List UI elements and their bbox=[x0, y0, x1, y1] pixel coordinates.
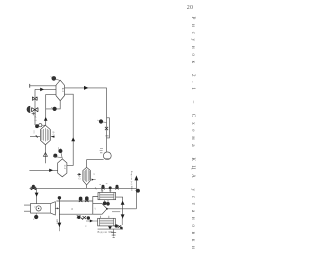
check valve at header/riser corner bbox=[136, 189, 140, 193]
T-1 bottom outlet valves bbox=[103, 201, 107, 205]
T-1 top nozzles bbox=[102, 188, 110, 192]
stub with arrow into T-2 shell bbox=[86, 220, 98, 222]
upper cross wire to ejector bbox=[56, 200, 92, 202]
wire into A-1 apex bbox=[35, 125, 45, 126]
wire K-1 side draw down to separator S-1 bbox=[65, 94, 74, 165]
svg-text:ЦК-1: ЦК-1 bbox=[56, 219, 59, 225]
suction stubs on E-1 left bbox=[24, 205, 31, 211]
control valve KR1 with actuator bbox=[27, 106, 38, 115]
heat exchanger T-2 shell bbox=[98, 218, 116, 226]
arrow on second inlet bbox=[40, 88, 44, 92]
wire A-2 bottom to main header bbox=[86, 185, 88, 188]
arrow up into T-1 return bbox=[121, 201, 125, 205]
main purge header wire bbox=[30, 187, 137, 189]
svg-text:Рисунок 2.1 – Схема КЦА устано: Рисунок 2.1 – Схема КЦА установки bbox=[190, 17, 196, 254]
tick on header bbox=[95, 187, 96, 189]
svg-text:сг: сг bbox=[93, 173, 95, 175]
valve on meter run bbox=[105, 127, 108, 130]
ejector EZh-1 bbox=[93, 204, 107, 215]
wire second inlet line to K-1 bbox=[35, 89, 56, 125]
valve row under lower cross wire bbox=[77, 215, 90, 219]
arrow down at bottom of down-leg bbox=[58, 223, 62, 227]
compressor PK-1 bbox=[103, 152, 111, 160]
valve pair with actuators on upper cross wire bbox=[79, 197, 83, 201]
svg-text:С-1: С-1 bbox=[63, 165, 66, 170]
wire raw feed into S-1 from left bbox=[29, 169, 57, 171]
branch down to receiver E-1 bbox=[36, 188, 38, 203]
svg-text:Вода из (к) ХВО: Вода из (к) ХВО bbox=[130, 171, 133, 192]
T-2 inlet jog wire bbox=[112, 211, 120, 213]
arrow on overhead line bbox=[84, 86, 88, 90]
svg-text:А-1: А-1 bbox=[52, 131, 55, 136]
column K-1 body bbox=[56, 80, 65, 101]
wire regeneration gas into A-1 left bbox=[30, 135, 40, 137]
node feed tick bbox=[29, 84, 31, 88]
pump N-0 on bottoms line bbox=[53, 107, 57, 111]
arrow up to K-1 bbox=[44, 117, 48, 121]
wire T-1 left head to ejector top bbox=[93, 197, 98, 204]
svg-text:ВСГ: ВСГ bbox=[33, 112, 36, 118]
wire compressor to adsorber A-2 bbox=[87, 159, 104, 167]
orifice tick bbox=[105, 135, 108, 137]
T-2 top stubs bbox=[100, 216, 109, 219]
arrow on S-1 feed bbox=[49, 169, 53, 172]
wire T-1 right head down across collector bbox=[116, 197, 123, 219]
arrow down on branch bbox=[35, 193, 39, 197]
tag marks above T-1 bbox=[99, 183, 107, 186]
outlet riser wire with arrow bbox=[135, 180, 137, 209]
main run of meter station bbox=[106, 118, 108, 152]
separator S-1 vessel bbox=[58, 159, 67, 177]
tube bundle lines T-1 bbox=[100, 194, 114, 197]
svg-text:2: 2 bbox=[84, 225, 87, 227]
compressor tag lines bbox=[100, 148, 103, 152]
valve VN1 on riser bbox=[32, 97, 37, 101]
arrow into A-1 right side with stub bbox=[51, 136, 55, 138]
instrument FE with leader bbox=[99, 119, 103, 123]
svg-text:ц: ц bbox=[33, 206, 35, 208]
valve with handwheel on header left end bbox=[32, 185, 35, 188]
heat exchanger T-1 shell bbox=[98, 193, 116, 200]
cooling water return wire under T-2 bbox=[98, 228, 123, 230]
tick valve on that wire bbox=[36, 135, 38, 137]
lower cross wire (ejector suction) bbox=[59, 213, 92, 215]
instrument under E-1 bbox=[34, 215, 38, 219]
vent triangle on A-1 bottom line bbox=[43, 153, 47, 157]
svg-text:газ: газ bbox=[32, 130, 35, 133]
adsorbent bed hatching A-1 bbox=[42, 128, 49, 141]
adsorber A-1 vessel bbox=[40, 125, 50, 145]
svg-text:20: 20 bbox=[187, 5, 193, 11]
wire A-1 bottom to separator S-1 inlet header bbox=[44, 145, 46, 163]
arrow out of A-2 right with stub bbox=[92, 179, 95, 181]
arrow into A-2 left bbox=[77, 173, 79, 175]
arrow down below T-2 bbox=[108, 226, 112, 229]
impeller circle inside E-1 bbox=[36, 206, 41, 211]
valve cluster on header above T-1 bbox=[102, 185, 105, 188]
product down-leg wire bbox=[58, 197, 60, 227]
meter station D1 bypass loop bbox=[107, 118, 110, 138]
svg-text:К-1: К-1 bbox=[61, 88, 64, 93]
arrow up on S-1 vapor return bbox=[71, 137, 75, 141]
svg-text:Э: Э bbox=[94, 208, 97, 210]
valve pair above S-1 bbox=[58, 149, 62, 153]
wire K-1 bottoms with inline pump to riser bbox=[46, 101, 61, 109]
svg-text:8: 8 bbox=[70, 208, 73, 210]
drain symbol below T-2 bbox=[113, 229, 115, 236]
valve cluster right of T-2 bbox=[115, 224, 118, 227]
adsorbent bed hatching A-2 bbox=[84, 169, 89, 182]
wire K-1 overhead to meter assembly bbox=[65, 88, 107, 118]
collector wire from ejector tip to outlet riser bbox=[107, 208, 136, 210]
tube bundle lines T-2 bbox=[100, 220, 114, 224]
receiver / silencer E-1 body bbox=[31, 202, 56, 215]
wire K-1 lower-left outlet down to adsorber A-1 bbox=[46, 95, 56, 125]
svg-text:А-2: А-2 bbox=[77, 175, 80, 180]
adsorber A-2 vessel bbox=[83, 167, 91, 185]
svg-text:1-2: 1-2 bbox=[34, 117, 37, 122]
wire feed line into column K-1 upper inlet bbox=[30, 85, 57, 87]
valve dot at top of down-leg bbox=[58, 196, 61, 199]
instrument circle pair at A-1 top bbox=[35, 124, 39, 128]
node at ejector tip bbox=[106, 208, 108, 210]
connector E-1 outlet to down-leg bbox=[55, 207, 59, 209]
instrument PSV on K-1 top bbox=[52, 76, 57, 81]
arrow down into T-2 bbox=[121, 214, 125, 218]
